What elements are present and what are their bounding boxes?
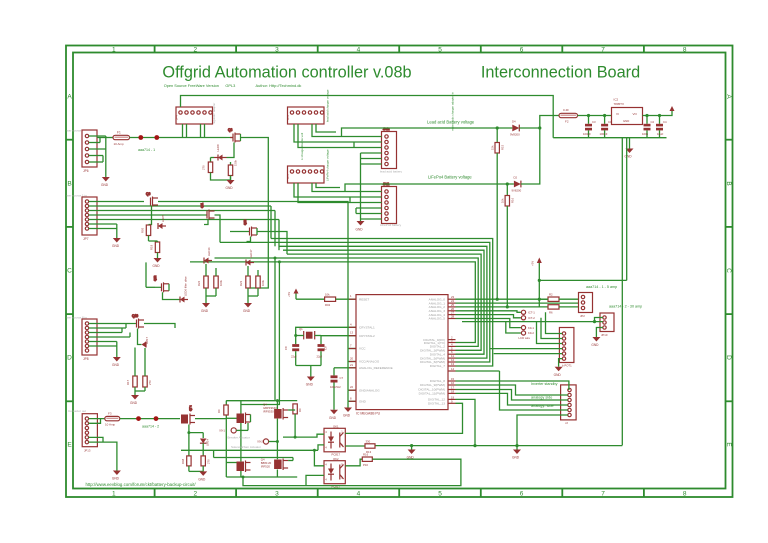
- resistor R21 vertical: [202, 158, 215, 173]
- resistor R1 bridge left: [217, 405, 228, 415]
- diode D2: [512, 176, 522, 193]
- svg-text:GND: GND: [226, 186, 234, 190]
- wire row450 to OK2 pin: [314, 450, 324, 466]
- svg-text:R2: R2: [549, 293, 553, 297]
- svg-text:C: C: [725, 268, 732, 273]
- transistor Q13: [230, 219, 257, 236]
- svg-text:13: 13: [350, 331, 354, 335]
- connector JP8: [82, 319, 97, 361]
- junction digital12 row: [473, 444, 476, 447]
- svg-text:CRYSTAL1: CRYSTAL1: [359, 326, 375, 330]
- ic U1 left pin labels: [359, 297, 393, 403]
- gnd led chain: [198, 471, 207, 481]
- wire X9 row to OK1 pin: [283, 434, 324, 437]
- frame row ticks left: [66, 140, 73, 402]
- svg-text:LiFePo4 charger voltage: LiFePo4 charger voltage: [326, 149, 330, 181]
- svg-text:LM14: LM14: [206, 439, 210, 446]
- svg-text:LM17: LM17: [145, 337, 149, 344]
- svg-text:28: 28: [451, 315, 455, 319]
- svg-text:C9: C9: [324, 346, 328, 350]
- junction gnd row445: [410, 444, 413, 447]
- wire after fuse: [130, 137, 227, 139]
- wire Q7 to bridge: [195, 418, 226, 420]
- svg-text:LiFePo4 battery: LiFePo4 battery: [380, 223, 402, 227]
- wire Q12 links: [146, 262, 180, 299]
- svg-text:100k: 100k: [261, 279, 265, 286]
- wire bridge bottoms: [226, 458, 293, 478]
- frame row letters: [67, 94, 732, 449]
- svg-text:R15: R15: [501, 144, 505, 150]
- wire JP9 pin6 gnd: [517, 415, 568, 446]
- svg-text:Q6: Q6: [146, 192, 150, 196]
- bundle rows middle horizontals: [190, 239, 493, 367]
- actuator X9-2: [257, 439, 277, 444]
- svg-text:5: 5: [438, 491, 442, 498]
- wire Q13 connections: [247, 228, 288, 254]
- svg-text:10uF: 10uF: [657, 132, 664, 136]
- capacitor C4: [656, 114, 667, 138]
- transistor Q7: [181, 405, 195, 424]
- gnd below JP13: [112, 471, 121, 481]
- svg-text:C: C: [67, 268, 72, 275]
- svg-text:7: 7: [601, 491, 605, 498]
- svg-text:9V8200: 9V8200: [510, 133, 520, 137]
- svg-text:P16: P16: [363, 463, 368, 467]
- wire digital11 to JP9 pin4: [456, 393, 568, 405]
- svg-text:RESET: RESET: [359, 297, 369, 301]
- wire crystal2 row: [321, 336, 356, 344]
- svg-text:A: A: [67, 94, 72, 101]
- svg-text:D: D: [67, 355, 72, 362]
- svg-text:OK1: OK1: [333, 424, 339, 428]
- svg-text:3: 3: [275, 47, 279, 54]
- wire D4 to riser: [519, 116, 559, 129]
- led LED6 filter alive: [180, 276, 188, 303]
- svg-text:4: 4: [357, 491, 361, 498]
- wire Q11 connections: [204, 215, 220, 242]
- wire OK1 out to R13: [345, 445, 365, 447]
- svg-text:270: 270: [202, 165, 206, 170]
- svg-text:aaa714 - 2: aaa714 - 2: [142, 425, 159, 429]
- pad aaa714-1 a: [138, 135, 143, 140]
- svg-text:CRYSTAL2: CRYSTAL2: [359, 334, 375, 338]
- frame column numbers: [112, 47, 687, 498]
- transistor Q11: [200, 202, 215, 219]
- wire analog_5 row to K9: [456, 319, 521, 328]
- svg-text:D: D: [725, 355, 732, 360]
- wire digital9 to JP9 pin2: [456, 385, 568, 395]
- gnd below R22: [201, 303, 210, 313]
- connector JP6: [82, 130, 97, 173]
- svg-text:JP8: JP8: [83, 357, 89, 361]
- resistor R6: [548, 305, 559, 315]
- top bus wire: [181, 96, 554, 138]
- gnd below R14: [226, 180, 235, 190]
- ic U1 MEGA8B body: [356, 295, 448, 410]
- wire crystal1 row: [296, 327, 356, 344]
- svg-text:100nF: 100nF: [600, 132, 608, 136]
- svg-text:Q13: Q13: [243, 219, 247, 225]
- resistor R15: [491, 126, 505, 300]
- svg-text:C3: C3: [592, 120, 596, 124]
- junction led drop: [187, 431, 190, 434]
- capacitor C9 22pf: [317, 344, 328, 365]
- svg-text:+5V: +5V: [531, 261, 535, 266]
- svg-text:22pf: 22pf: [291, 355, 297, 359]
- svg-text:15k: 15k: [491, 145, 495, 150]
- bridge bottom rail: [226, 476, 297, 478]
- wire digital10 to JP9 pin3: [456, 390, 568, 401]
- led LED17: [246, 249, 254, 265]
- svg-text:GND: GND: [512, 456, 520, 460]
- svg-text:8: 8: [683, 47, 687, 54]
- wire vertical 213: [213, 450, 215, 457]
- svg-text:mains acdc charger adapter in: mains acdc charger adapter in: [451, 92, 455, 131]
- pad aaa714-2 b: [154, 416, 159, 421]
- svg-text:R05: R05: [141, 227, 145, 233]
- wires JP11 left: [345, 192, 382, 220]
- wire resistor to RESET pin: [336, 298, 356, 300]
- svg-text:GND/ANALOG: GND/ANALOG: [359, 388, 380, 392]
- connector JP10: [600, 313, 614, 337]
- diode D4: [510, 120, 520, 137]
- svg-text:B: B: [67, 181, 71, 188]
- svg-text:Q10: Q10: [132, 314, 138, 318]
- connector POT1: [559, 328, 574, 368]
- wire long vertical right b: [626, 138, 628, 281]
- transistor Q12: [153, 275, 169, 292]
- svg-text:22pf: 22pf: [317, 355, 323, 359]
- svg-text:GND: GND: [359, 400, 367, 404]
- gnd below JP7: [112, 238, 121, 248]
- svg-text:Interconnection Board: Interconnection Board: [481, 64, 640, 82]
- svg-text:JP7: JP7: [83, 237, 89, 241]
- svg-text:DIGITAL_9(PWM): DIGITAL_9(PWM): [420, 383, 445, 387]
- svg-text:Q11: Q11: [200, 202, 204, 208]
- svg-text:LED6 filter alive: LED6 filter alive: [184, 276, 188, 296]
- svg-text:Q12: Q12: [153, 275, 157, 281]
- supply +5V arrow right: [531, 258, 542, 307]
- svg-text:K9-2: K9-2: [528, 331, 534, 335]
- svg-text:4: 4: [357, 47, 361, 54]
- svg-text:X9-1: X9-1: [219, 429, 225, 433]
- svg-text:aaa714 - 1 - 5 amp: aaa714 - 1 - 5 amp: [586, 285, 617, 289]
- svg-text:JP5: JP5: [286, 174, 290, 179]
- junction bridge top: [276, 399, 279, 402]
- wire analog_4 row to ICT2: [456, 315, 521, 318]
- ic U1 left pin stubs: [349, 299, 356, 401]
- junction bridge mid: [276, 440, 279, 443]
- svg-text:1: 1: [112, 47, 116, 54]
- svg-text:GND: GND: [591, 343, 599, 347]
- wires POT1 feeds: [490, 312, 562, 353]
- svg-text:Inverter standby: Inverter standby: [531, 382, 558, 386]
- wires JP8 to Q10: [89, 324, 130, 358]
- connector JP12 lead acid battery: [380, 127, 403, 174]
- svg-text:9V8200: 9V8200: [512, 189, 522, 193]
- opto OK2: [324, 457, 345, 489]
- svg-text:E: E: [67, 442, 72, 449]
- svg-text:VCC: VCC: [359, 347, 366, 351]
- svg-text:K9-1: K9-1: [528, 326, 534, 330]
- svg-text:R16: R16: [511, 197, 515, 203]
- regulator bottom rail: [553, 137, 666, 139]
- gnd mid bottom: [512, 446, 521, 460]
- svg-text:GND: GND: [356, 228, 364, 232]
- wire +5V cross bus: [539, 279, 626, 281]
- svg-text:JP10: JP10: [601, 333, 608, 337]
- connector JP3 top: [286, 107, 324, 124]
- svg-text:b POT1: b POT1: [562, 364, 572, 368]
- gnd below R23: [243, 303, 252, 313]
- resistor R23 pair: [239, 266, 265, 303]
- wire JP6 pins to bus: [89, 136, 106, 177]
- led LED10: [200, 439, 210, 447]
- supply +5V arrow reset: [287, 289, 299, 300]
- crystal Q1: [296, 327, 321, 339]
- svg-text:F1: F1: [117, 131, 121, 135]
- resistor R08: [181, 433, 191, 472]
- gnd crystal: [306, 377, 315, 387]
- wire crystal gnd rail: [296, 366, 321, 377]
- wire R2 feed: [539, 298, 548, 300]
- svg-text:ANALOG_REFERENCE: ANALOG_REFERENCE: [359, 366, 393, 370]
- connector JP9: [561, 385, 577, 425]
- wire Q6 gate chain: [149, 207, 152, 225]
- fuse F3: [105, 412, 120, 427]
- wires JP3 down: [294, 124, 354, 148]
- label Q4 B880: [261, 458, 272, 469]
- ic U1 right pin labels: [418, 297, 445, 405]
- frame outer border: [66, 46, 733, 498]
- wire F2 to regulator: [578, 115, 612, 117]
- svg-text:IRF9530: IRF9530: [263, 410, 274, 414]
- fuse F2: [559, 108, 578, 124]
- junction +5V to bus: [538, 279, 541, 282]
- svg-text:2: 2: [193, 491, 197, 498]
- wire Q3 node: [226, 401, 241, 462]
- svg-text:C8: C8: [284, 346, 288, 350]
- resistor R05 vertical: [141, 225, 151, 242]
- svg-text:150k: 150k: [234, 159, 238, 166]
- wire POT1 gnd: [559, 359, 563, 367]
- svg-text:B: B: [725, 181, 732, 185]
- svg-text:VCC/ANALOG: VCC/ANALOG: [359, 360, 380, 364]
- svg-text:14: 14: [451, 367, 455, 371]
- svg-text:Breaker Actuator: Breaker Actuator: [228, 436, 250, 440]
- resistor R09: [189, 443, 211, 471]
- svg-text:OK2: OK2: [333, 457, 339, 461]
- wire fuse row: [97, 137, 113, 139]
- svg-text:LiFePo4 Battery voltage: LiFePo4 Battery voltage: [428, 175, 472, 180]
- junction row450: [313, 449, 316, 452]
- svg-text:A: A: [725, 94, 732, 99]
- wire long vertical right a: [621, 138, 623, 446]
- svg-text:GND: GND: [329, 416, 337, 420]
- label Q4 GBPF9640: [263, 403, 277, 414]
- svg-text:IC2: IC2: [614, 98, 619, 102]
- svg-text:Li charge disable volt: Li charge disable volt: [300, 133, 304, 160]
- svg-text:7: 7: [601, 47, 605, 54]
- capacitor C1: [600, 114, 613, 138]
- svg-text:ICT-1: ICT-1: [528, 311, 535, 315]
- svg-text:R6: R6: [549, 311, 553, 315]
- svg-text:E: E: [725, 442, 732, 447]
- svg-text:270: 270: [207, 459, 211, 464]
- svg-text:GND: GND: [198, 477, 206, 481]
- svg-text:10k: 10k: [501, 198, 505, 203]
- resistor R13 330: [365, 440, 375, 454]
- transistor Q5 pfet: [274, 408, 288, 420]
- led LED5: [158, 215, 166, 229]
- svg-text:10 Amp: 10 Amp: [105, 423, 116, 427]
- svg-text:JP2: JP2: [580, 314, 585, 318]
- gnd POT1: [554, 367, 563, 377]
- wire Q7 led drop: [189, 425, 203, 439]
- svg-text:Open Source FreeWare VersionGP: Open Source FreeWare VersionGPL3Author: …: [164, 83, 302, 88]
- wire vcc pins bus: [348, 349, 356, 402]
- svg-text:DIGITAL_11(PWM): DIGITAL_11(PWM): [419, 392, 445, 396]
- led LED16: [204, 247, 212, 263]
- wire R21 to R14: [211, 173, 231, 181]
- svg-text:ANALOG_5: ANALOG_5: [429, 317, 446, 321]
- gnd below JP8: [112, 357, 121, 367]
- svg-text:6: 6: [520, 491, 524, 498]
- wire gate row 450: [181, 449, 318, 451]
- wire contactor row: [120, 418, 180, 420]
- svg-text:LED16: LED16: [207, 247, 211, 256]
- led LED7: [142, 337, 150, 348]
- svg-text:X9-2: X9-2: [257, 440, 263, 444]
- wire long vertical down b: [241, 262, 280, 405]
- bridge top rail: [226, 401, 297, 477]
- resistor R19 vertical: [149, 241, 160, 258]
- wire Q8 drain right: [241, 138, 269, 204]
- labels ICT: [528, 311, 535, 321]
- wire JP10 pin1: [595, 318, 603, 322]
- wires JP12 left: [342, 137, 382, 222]
- svg-text:D4: D4: [512, 120, 516, 124]
- svg-text:GND: GND: [112, 477, 120, 481]
- svg-text:6: 6: [520, 47, 524, 54]
- connector JP11 lifepo4 battery: [380, 182, 402, 227]
- svg-text:C4: C4: [663, 120, 667, 124]
- ic U1 right pin stubs: [448, 299, 456, 403]
- actuator X9-1: [219, 423, 248, 433]
- svg-text:Offgrid Automation controller: Offgrid Automation controller v.08b: [162, 64, 411, 82]
- wire lifepo4 net: [345, 184, 514, 192]
- connector JP4 top: [175, 103, 217, 124]
- svg-text:16: 16: [451, 381, 455, 385]
- svg-text:GND: GND: [153, 264, 161, 268]
- svg-text:R22: R22: [197, 280, 201, 286]
- svg-text:LED17: LED17: [249, 249, 253, 258]
- svg-text:100uF: 100uF: [583, 132, 591, 136]
- transistor Q10: [130, 314, 144, 329]
- svg-text:Q1: Q1: [299, 327, 303, 331]
- svg-text:R17: R17: [126, 379, 130, 385]
- wires JP7 to bundle: [89, 202, 279, 239]
- ic U1 pin numbers: [350, 294, 455, 403]
- resistor R14 vertical: [228, 159, 237, 180]
- gnd C7: [329, 410, 338, 420]
- svg-text:Q8: Q8: [228, 128, 232, 132]
- wire bridge to row484: [243, 477, 306, 486]
- svg-text:7805TV: 7805TV: [614, 102, 625, 106]
- junction pad Q8 gate drop: [227, 143, 235, 158]
- svg-text:R08: R08: [181, 458, 185, 464]
- svg-text:1: 1: [112, 491, 116, 498]
- svg-text:R19: R19: [150, 244, 154, 250]
- svg-text:C2: C2: [651, 120, 655, 124]
- junction gnd row: [515, 444, 518, 447]
- svg-text:GND: GND: [201, 309, 209, 313]
- svg-text:GND: GND: [243, 309, 251, 313]
- wire JP10 gnd drop: [596, 328, 602, 338]
- led LED8: [214, 155, 227, 161]
- svg-text:0.4F: 0.4F: [563, 108, 569, 112]
- svg-text:LCD wire: LCD wire: [519, 336, 531, 340]
- svg-text:R0: R0: [298, 408, 302, 412]
- svg-text:C7: C7: [340, 376, 344, 380]
- gnd regulator rail: [625, 138, 634, 159]
- frame column ticks top: [155, 46, 644, 53]
- wire row to JP10: [462, 321, 603, 323]
- svg-text:IRF520: IRF520: [261, 465, 271, 469]
- wire R2 to JP2: [559, 298, 583, 300]
- svg-text:R16: R16: [363, 453, 369, 457]
- svg-text:18: 18: [451, 389, 455, 393]
- resistor R02 10k horizontal: [325, 293, 336, 308]
- pad aaa714-2 a: [136, 416, 141, 421]
- fuse F1: [113, 131, 130, 147]
- svg-text:Contactor out: Contactor out: [68, 409, 86, 413]
- wire lead acid net: [342, 128, 513, 137]
- transistor Q2 nfet: [237, 461, 251, 473]
- svg-text:lead acid battery: lead acid battery: [380, 170, 403, 174]
- svg-text:GND: GND: [623, 119, 629, 123]
- svg-text:lead acid charger voltage: lead acid charger voltage: [326, 89, 330, 122]
- bundle rows upper left: [271, 206, 279, 250]
- svg-text:LED8: LED8: [216, 144, 220, 151]
- junction bridge bottom: [242, 476, 245, 479]
- svg-text:DIGITAL_7: DIGITAL_7: [430, 364, 446, 368]
- gnd JP11: [356, 221, 365, 232]
- wire digital8 to JP9 pin1: [456, 381, 569, 390]
- capacitor C2: [642, 114, 655, 138]
- svg-text:JP13: JP13: [84, 449, 91, 453]
- gnd row445 left: [407, 446, 416, 460]
- svg-text:regulator adapter: regulator adapter: [212, 103, 216, 124]
- wires JP5 down: [294, 183, 350, 203]
- svg-text:100n: 100n: [642, 132, 649, 136]
- junction row258: [274, 257, 277, 260]
- transistor Q8: [227, 128, 241, 143]
- svg-text:2: 2: [193, 47, 197, 54]
- svg-text:Solenoid/Jam Actuator: Solenoid/Jam Actuator: [231, 445, 261, 449]
- pad aaa714-1 b: [154, 135, 159, 140]
- gnd JP10: [591, 337, 600, 347]
- svg-text:aaa714 - 2 - 30 amp: aaa714 - 2 - 30 amp: [609, 305, 642, 309]
- svg-text:aaa714 - 1: aaa714 - 1: [138, 148, 155, 152]
- svg-text:3: 3: [275, 491, 279, 498]
- svg-text:5: 5: [438, 47, 442, 54]
- resistor R2 bridge right: [293, 404, 302, 414]
- junction JP10: [593, 320, 596, 323]
- svg-text:D2: D2: [514, 176, 518, 180]
- frame column ticks bottom: [155, 489, 644, 498]
- resistor R17 pair: [126, 348, 152, 396]
